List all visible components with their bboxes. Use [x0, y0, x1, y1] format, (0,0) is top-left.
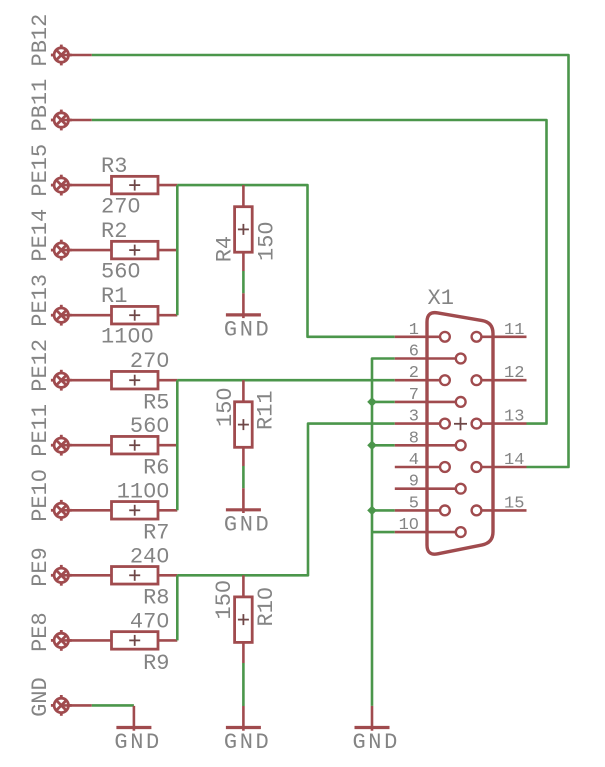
label R4	[213, 236, 238, 262]
svg-text:R1: R1	[101, 284, 127, 309]
X1 pin 11 lead	[481, 335, 527, 338]
resistor R10	[242, 575, 245, 597]
svg-text:PE10: PE10	[28, 469, 53, 522]
svg-text:R5: R5	[143, 391, 169, 416]
pin PE12	[51, 370, 72, 391]
svg-text:PE8: PE8	[28, 612, 53, 652]
resistor R2	[61, 249, 111, 252]
wire GND symbol pin (under X1)	[371, 706, 374, 728]
resistor R3	[61, 184, 111, 187]
svg-text:1100: 1100	[117, 479, 170, 504]
svg-text:4: 4	[409, 451, 419, 470]
X1 pin 9 lead	[395, 487, 456, 490]
svg-text:R3: R3	[101, 154, 127, 179]
pin PE13	[51, 305, 72, 326]
pin GND	[51, 695, 72, 716]
pin PB11	[51, 110, 72, 131]
svg-text:6: 6	[409, 343, 419, 362]
svg-text:240: 240	[130, 544, 170, 569]
wire X1 pin 10 net	[372, 531, 395, 534]
wire net PB12 pin lead	[61, 54, 92, 57]
svg-text:11: 11	[504, 321, 524, 340]
svg-text:150: 150	[213, 387, 238, 427]
X1 pin 13 lead	[481, 422, 527, 425]
resistor R1	[61, 314, 111, 317]
X1 pin 5 lead	[395, 509, 441, 512]
X1 pin 10 circle	[456, 527, 466, 537]
svg-text:150: 150	[212, 580, 237, 620]
wire GND pin lead	[61, 704, 92, 707]
label PE11	[28, 404, 53, 457]
svg-text:10: 10	[399, 516, 419, 535]
label R10	[254, 587, 279, 627]
resistor R7	[61, 509, 111, 512]
ground GND (under X1)	[355, 726, 390, 729]
svg-text:GND: GND	[353, 730, 400, 755]
value 150 (R4)	[254, 221, 279, 261]
wire GND symbol pin (left)	[133, 706, 136, 728]
pin PE11	[51, 435, 72, 456]
wire net PB12 to X1 pin 14	[92, 55, 569, 467]
junction at pin 7	[367, 397, 377, 407]
svg-text:PE12: PE12	[28, 339, 53, 392]
pin PE8	[51, 630, 72, 651]
svg-text:1: 1	[409, 321, 419, 340]
X1 pin 4 lead	[395, 466, 441, 469]
svg-text:2: 2	[409, 364, 419, 383]
svg-text:9: 9	[409, 473, 419, 492]
X1 pin 15 circle	[472, 506, 482, 516]
ground GND (under R10)	[226, 726, 261, 729]
svg-text:R8: R8	[143, 586, 169, 611]
svg-text:PE13: PE13	[28, 274, 53, 327]
X1 pin 5 circle	[440, 506, 450, 516]
X1 pin 3 lead	[395, 422, 441, 425]
svg-text:5: 5	[409, 494, 419, 513]
label PE15	[28, 144, 53, 197]
X1 pin 15 lead	[481, 509, 527, 512]
value 150 (R11)	[213, 387, 238, 427]
pin PE10	[51, 500, 72, 521]
label PE8	[28, 612, 53, 652]
svg-text:GND: GND	[114, 730, 161, 755]
X1 pin 10 lead	[395, 531, 456, 534]
svg-text:PE9: PE9	[28, 547, 53, 587]
wire X1 pin 7 net	[372, 401, 395, 404]
resistor R6	[61, 444, 111, 447]
svg-text:PE14: PE14	[28, 209, 53, 262]
svg-text:GND: GND	[224, 730, 271, 755]
wire bus net3 vertical	[176, 575, 179, 640]
pin PB12	[51, 45, 72, 66]
svg-text:7: 7	[409, 386, 419, 405]
svg-text:R10: R10	[254, 587, 279, 627]
X1 pin 3 circle	[440, 419, 450, 429]
junction at pin 8	[367, 441, 377, 451]
ground GND (under R11)	[226, 508, 261, 511]
X1 pin 12 circle	[472, 375, 482, 385]
svg-text:R7: R7	[143, 521, 169, 546]
svg-text:PE15: PE15	[28, 144, 53, 197]
X1 pin 8 circle	[456, 440, 466, 450]
wire R10 to GND	[242, 642, 245, 663]
svg-text:470: 470	[130, 609, 170, 634]
label PE13	[28, 274, 53, 327]
wire X1 pin 5 net	[372, 509, 395, 512]
svg-text:PB11: PB11	[28, 79, 53, 132]
value 150 (R10)	[212, 580, 237, 620]
connector X1 body	[427, 313, 493, 555]
X1 pin 12 lead	[481, 379, 527, 382]
svg-text:R6: R6	[143, 456, 169, 481]
pin PE9	[51, 565, 72, 586]
svg-text:GND: GND	[224, 317, 271, 342]
X1 pin 2 circle	[440, 375, 450, 385]
svg-text:GND: GND	[224, 512, 271, 537]
svg-text:R11: R11	[254, 390, 279, 430]
resistor R8	[61, 574, 111, 577]
wire GND pin net	[92, 704, 134, 707]
svg-text:560: 560	[101, 259, 141, 284]
resistor R5	[61, 379, 111, 382]
resistor R4	[242, 185, 245, 207]
wire R4 to GND	[242, 252, 245, 271]
wire GND net vertical at X1	[372, 359, 395, 706]
resistor R11	[242, 380, 245, 402]
svg-text:1100: 1100	[101, 325, 154, 350]
wire R11 to GND	[242, 447, 245, 466]
label PB12	[28, 14, 53, 67]
svg-text:PE11: PE11	[28, 404, 53, 457]
label PE12	[28, 339, 53, 392]
svg-text:13: 13	[504, 408, 524, 427]
label PE10	[28, 469, 53, 522]
svg-text:12: 12	[504, 364, 524, 383]
svg-text:X1: X1	[428, 286, 454, 311]
X1 pin 7 lead	[395, 401, 456, 404]
wire net PB11 to X1 pin 13	[92, 120, 547, 424]
X1 pin 7 circle	[456, 397, 466, 407]
X1 pin 8 lead	[395, 444, 456, 447]
svg-text:15: 15	[504, 494, 524, 513]
X1 pin 11 circle	[472, 332, 482, 342]
X1 pin 14 lead	[481, 466, 527, 469]
label R11	[254, 390, 279, 430]
svg-text:560: 560	[130, 414, 170, 439]
svg-text:GND: GND	[28, 677, 53, 717]
label PE14	[28, 209, 53, 262]
ground GND (bottom left)	[116, 726, 151, 729]
ground GND (under R4)	[226, 313, 261, 316]
label PE9	[28, 547, 53, 587]
origin cross X1	[454, 423, 467, 425]
pin PE14	[51, 240, 72, 261]
X1 pin 4 circle	[440, 462, 450, 472]
X1 pin 14 circle	[472, 462, 482, 472]
wire net PB11 pin lead	[61, 119, 92, 122]
wire net3 to X1 pin 3	[177, 424, 394, 576]
X1 pin 2 lead	[395, 379, 441, 382]
wire net2 to X1 pin 2	[177, 379, 394, 382]
svg-text:270: 270	[101, 194, 141, 219]
wire bus net1 vertical	[176, 185, 179, 315]
resistor R9	[61, 639, 111, 642]
X1 pin 1 circle	[440, 332, 450, 342]
svg-text:270: 270	[130, 349, 170, 374]
wire net1 to X1 pin 1	[177, 185, 394, 337]
svg-text:R2: R2	[101, 219, 127, 244]
X1 pin 1 lead	[395, 335, 441, 338]
pin PE15	[51, 175, 72, 196]
X1 pin 13 circle	[472, 419, 482, 429]
X1 pin 6 circle	[456, 354, 466, 364]
svg-text:150: 150	[254, 221, 279, 261]
wire bus net2 vertical	[176, 380, 179, 510]
X1 pin 9 circle	[456, 484, 466, 494]
junction at pin 5	[367, 506, 377, 516]
svg-text:14: 14	[504, 451, 524, 470]
svg-text:R9: R9	[143, 651, 169, 676]
label GND pin	[28, 677, 53, 717]
label PB11	[28, 79, 53, 132]
svg-text:3: 3	[409, 408, 419, 427]
svg-text:PB12: PB12	[28, 14, 53, 67]
X1 pin 6 lead	[395, 357, 456, 360]
svg-text:R4: R4	[213, 236, 238, 262]
svg-text:8: 8	[409, 429, 419, 448]
wire X1 pin 8 net	[372, 444, 395, 447]
